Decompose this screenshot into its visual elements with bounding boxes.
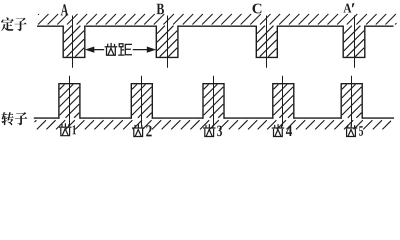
centerline stator tooth A-prime — [354, 16, 356, 68]
centerline stator tooth B — [167, 16, 169, 68]
stator tooth A-prime — [343, 26, 365, 58]
label tooth 1 (Chi1) — [60, 124, 76, 136]
label A — [61, 4, 68, 15]
rotor tooth 1 — [59, 84, 80, 119]
label DingZi (stator) — [1, 17, 27, 31]
centerline stator tooth C — [266, 16, 268, 68]
label tooth 5 (Chi5) — [345, 125, 363, 137]
centerline rotor tooth 4 — [282, 76, 284, 127]
label tooth 4 (Chi4) — [272, 125, 292, 137]
stator tooth C — [256, 26, 277, 58]
stator surface line — [37, 25, 394, 27]
centerline rotor tooth 1 — [69, 76, 71, 127]
label tooth 2 (Chi2) — [133, 125, 152, 137]
centerline stator tooth A — [72, 16, 74, 68]
stator tooth B — [156, 26, 178, 58]
label tooth 3 (Chi3) — [204, 125, 222, 137]
centerline rotor tooth 5 — [351, 76, 353, 127]
label C — [252, 4, 261, 14]
rotor tooth 4 — [273, 84, 294, 119]
dimension arrow tooth pitch — [85, 47, 156, 53]
rotor body hatch band — [35, 120, 392, 129]
rotor tooth 3 — [203, 84, 224, 119]
stator tooth A — [63, 26, 85, 58]
rotor tooth 2 — [131, 84, 152, 119]
label ChiJu (tooth pitch) — [105, 44, 131, 56]
rotor surface line — [34, 117, 394, 119]
rotor tooth 5 — [341, 84, 362, 119]
centerline rotor tooth 2 — [141, 76, 143, 127]
centerline rotor tooth 3 — [213, 76, 215, 127]
stator body hatch band — [38, 14, 397, 25]
label B — [157, 4, 164, 14]
label ZhuanZi (rotor) — [1, 112, 27, 125]
label A prime — [343, 3, 354, 12]
